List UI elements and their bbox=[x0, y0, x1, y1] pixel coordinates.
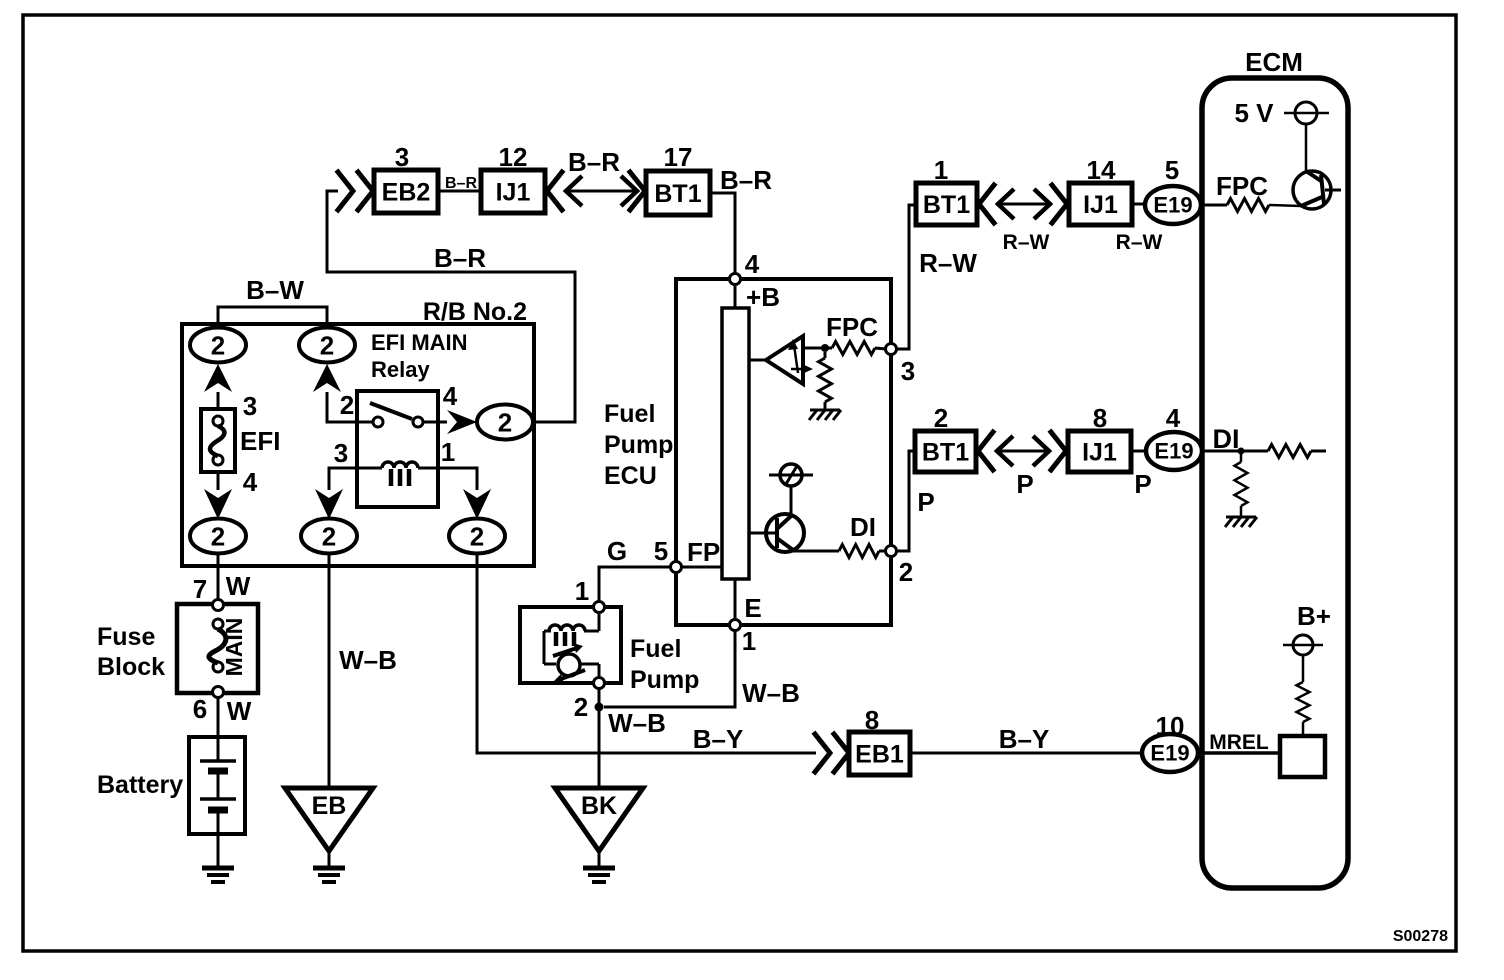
wire B-R EB2 to IJ1 bbox=[438, 190, 481, 193]
arrow right to relay output connector bbox=[447, 410, 477, 434]
svg-text:1: 1 bbox=[441, 437, 455, 467]
svg-text:W–B: W–B bbox=[339, 645, 397, 675]
fuel pump box bbox=[520, 607, 621, 683]
svg-text:3: 3 bbox=[334, 438, 348, 468]
svg-text:4: 4 bbox=[243, 467, 258, 497]
svg-text:ECM: ECM bbox=[1245, 47, 1303, 77]
wire IJ1 to E19 (row1) bbox=[1132, 203, 1145, 206]
node 4 (+B terminal) bbox=[730, 274, 741, 285]
chassis ground (divider) bbox=[810, 409, 840, 412]
relay switch blade bbox=[370, 403, 412, 419]
wire node 4 to IC bar bbox=[734, 284, 737, 308]
svg-text:B–R: B–R bbox=[720, 165, 772, 195]
svg-text:IJ1: IJ1 bbox=[1083, 191, 1118, 219]
svg-text:2: 2 bbox=[211, 331, 225, 361]
svg-text:B–R: B–R bbox=[445, 175, 477, 192]
connector E19 (5) bbox=[1145, 186, 1201, 224]
svg-text:MAIN: MAIN bbox=[221, 618, 247, 677]
junction connector EB2 bbox=[374, 170, 438, 213]
svg-text:IJ1: IJ1 bbox=[496, 179, 531, 207]
junction connector IJ1 (12) bbox=[481, 170, 545, 213]
wire DI resistor tail bbox=[1311, 450, 1326, 453]
svg-text:E19: E19 bbox=[1154, 439, 1193, 464]
wire G fuel pump to FP bbox=[599, 567, 671, 602]
svg-text:6: 6 bbox=[193, 694, 207, 724]
resistor to ground (divider) bbox=[824, 352, 827, 358]
ECU box Fuel Pump ECU bbox=[676, 279, 891, 625]
transistor Q1 (pump driver) bbox=[766, 514, 804, 552]
svg-text:3: 3 bbox=[901, 356, 915, 386]
inline connector chevron at IJ1 left bbox=[1052, 185, 1067, 223]
wire connector to EFI fuse bbox=[217, 392, 220, 409]
op-amp (driver amplifier) bbox=[766, 336, 803, 384]
junction connector IJ1 (14) bbox=[1069, 183, 1132, 225]
resistor DI (ECM input) bbox=[1268, 445, 1311, 458]
inline connector chevron at BT1 right bbox=[979, 185, 994, 223]
svg-text:B–R: B–R bbox=[434, 243, 486, 273]
svg-text:4: 4 bbox=[1166, 403, 1181, 433]
relay EFI MAIN box bbox=[357, 391, 438, 507]
wire current source to transistor bbox=[790, 486, 793, 516]
connector 2 (bottom right) bbox=[449, 519, 505, 554]
wire E19 to FPC resistor bbox=[1201, 204, 1227, 207]
wire transistor to DI resistor bbox=[793, 550, 839, 553]
wire pump pin 2 to BK bbox=[598, 689, 601, 788]
svg-text:R–W: R–W bbox=[1003, 231, 1050, 254]
svg-text:Battery: Battery bbox=[97, 771, 183, 799]
wire connector to fuse block bbox=[217, 553, 220, 601]
svg-text:DI: DI bbox=[850, 512, 876, 542]
wire FPC resistor to transistor bbox=[1269, 205, 1301, 206]
fuse block MAIN bbox=[177, 604, 258, 693]
current source symbol bbox=[769, 474, 813, 477]
svg-text:Block: Block bbox=[97, 653, 165, 681]
pin 2 (fuel pump) bbox=[594, 678, 605, 689]
relay contact left bbox=[373, 417, 383, 427]
svg-text:BT1: BT1 bbox=[923, 191, 970, 219]
inline connector chevron at IJ1 right bbox=[547, 172, 562, 210]
connector 2 (bottom middle) bbox=[301, 519, 357, 554]
svg-text:BK: BK bbox=[581, 792, 617, 820]
inline connector chevron at BT1 left bbox=[630, 172, 645, 210]
svg-text:B+: B+ bbox=[1297, 601, 1331, 631]
svg-text:ECU: ECU bbox=[604, 462, 657, 490]
wire resistor to node 2 bbox=[879, 550, 886, 553]
transistor Q2 (FPC monitor, ECM) bbox=[1293, 171, 1331, 209]
svg-text:R–W: R–W bbox=[919, 248, 977, 278]
ground (battery) bbox=[202, 866, 234, 871]
junction dot (FPC divider) bbox=[821, 344, 829, 352]
wire 5V to transistor bbox=[1305, 124, 1308, 172]
svg-text:3: 3 bbox=[243, 391, 257, 421]
svg-text:P: P bbox=[1016, 469, 1033, 499]
wire battery to ground bbox=[217, 834, 220, 867]
svg-text:1: 1 bbox=[934, 155, 948, 185]
junction connector EB1 bbox=[849, 732, 910, 775]
battery BATTERY bbox=[189, 737, 245, 834]
svg-text:2: 2 bbox=[934, 403, 948, 433]
wire IC bar to node E bbox=[734, 579, 737, 620]
relay block R/B No.2 bbox=[182, 324, 534, 566]
svg-text:5 V: 5 V bbox=[1234, 98, 1274, 128]
svg-text:+B: +B bbox=[746, 282, 780, 312]
svg-text:14: 14 bbox=[1087, 155, 1116, 185]
resistor FPC (ECM) bbox=[1227, 199, 1269, 212]
wire E19 to DI resistor (ECM) bbox=[1202, 450, 1268, 453]
junction connector BT1 (2) bbox=[915, 431, 976, 472]
inline connector arrows into EB1 bbox=[815, 734, 830, 772]
svg-text:Fuse: Fuse bbox=[97, 623, 155, 651]
svg-text:12: 12 bbox=[499, 142, 528, 172]
svg-text:4: 4 bbox=[443, 381, 458, 411]
MREL driver block bbox=[1280, 736, 1325, 777]
svg-text:EB1: EB1 bbox=[855, 741, 904, 769]
junction connector BT1 (1) bbox=[916, 183, 977, 225]
svg-text:P: P bbox=[1134, 469, 1151, 499]
svg-text:5: 5 bbox=[654, 536, 668, 566]
wire connector to relay contact bbox=[327, 392, 373, 422]
pump internal circuit bbox=[598, 612, 601, 631]
ground (EB) bbox=[313, 866, 345, 871]
ground point EB bbox=[285, 788, 373, 851]
svg-text:2: 2 bbox=[498, 408, 512, 438]
inline connector chevron at BT1-2 right bbox=[978, 432, 993, 470]
wire E to pump pin 2 node bbox=[604, 631, 735, 707]
wire relay contact to output connector bbox=[423, 421, 447, 424]
relay contact right bbox=[413, 417, 423, 427]
svg-text:17: 17 bbox=[664, 142, 693, 172]
junction dot (DI) bbox=[1238, 448, 1245, 455]
svg-text:DI: DI bbox=[1213, 424, 1240, 454]
svg-text:B–Y: B–Y bbox=[999, 724, 1050, 754]
svg-text:IJ1: IJ1 bbox=[1082, 439, 1117, 467]
arrow down to bottom-left connector bbox=[204, 489, 232, 519]
svg-text:BT1: BT1 bbox=[922, 439, 969, 467]
svg-text:10: 10 bbox=[1156, 711, 1185, 741]
svg-text:B–Y: B–Y bbox=[693, 724, 744, 754]
svg-text:FP: FP bbox=[687, 537, 720, 567]
wire IC bar to op-amp bbox=[749, 359, 766, 362]
arrow up to top-middle connector bbox=[313, 364, 341, 392]
svg-text:EB: EB bbox=[312, 792, 347, 820]
svg-text:2: 2 bbox=[211, 522, 225, 552]
svg-text:EFI: EFI bbox=[240, 426, 280, 456]
wire P node 2 to BT1 bbox=[896, 451, 915, 551]
node E terminal bbox=[730, 620, 741, 631]
svg-text:E: E bbox=[744, 593, 761, 623]
svg-text:E19: E19 bbox=[1153, 193, 1192, 218]
double arrow BT1 to IJ1 (R-W) bbox=[998, 203, 1050, 206]
svg-text:8: 8 bbox=[865, 705, 879, 735]
wire FP to IC bar bbox=[682, 566, 722, 569]
svg-text:S00278: S00278 bbox=[1393, 928, 1448, 945]
double arrow IJ1 to BT1 bbox=[566, 190, 637, 193]
node 2 (DI terminal) bbox=[886, 546, 897, 557]
svg-text:8: 8 bbox=[1093, 403, 1107, 433]
svg-text:1: 1 bbox=[742, 626, 756, 656]
wire E19 to MREL block bbox=[1198, 751, 1280, 755]
chassis ground (DI) bbox=[1226, 516, 1256, 519]
svg-text:1: 1 bbox=[575, 576, 589, 606]
wire B-W bracket between connectors bbox=[218, 307, 327, 327]
svg-text:EB2: EB2 bbox=[382, 179, 431, 207]
svg-text:E19: E19 bbox=[1150, 741, 1189, 766]
svg-text:BT1: BT1 bbox=[654, 180, 701, 208]
junction dot (pin2/E) bbox=[595, 703, 604, 712]
svg-text:W–B: W–B bbox=[608, 708, 666, 738]
connector 2 (top left) bbox=[190, 328, 246, 363]
wire B-R from EFI MAIN relay output to EB2 bbox=[327, 191, 575, 422]
wire BK to ground bbox=[598, 851, 601, 867]
svg-text:P: P bbox=[917, 487, 934, 517]
svg-text:5: 5 bbox=[1165, 155, 1179, 185]
wire IJ1 to E19 (row2) bbox=[1131, 450, 1146, 453]
resistor DI to ground bbox=[1240, 451, 1243, 462]
arrow up to top-left connector bbox=[204, 364, 232, 392]
svg-text:EFI MAIN: EFI MAIN bbox=[371, 330, 468, 355]
svg-text:Fuel: Fuel bbox=[604, 400, 655, 428]
svg-text:W: W bbox=[226, 571, 251, 601]
arrow down to bottom-middle connector bbox=[315, 489, 343, 519]
double arrow BT1 to IJ1 (P) bbox=[997, 450, 1049, 453]
svg-text:7: 7 bbox=[193, 574, 207, 604]
inline connector arrows into EB2 bbox=[338, 172, 353, 210]
svg-text:3: 3 bbox=[395, 142, 409, 172]
svg-text:Pump: Pump bbox=[630, 666, 699, 694]
svg-text:W: W bbox=[227, 696, 252, 726]
inline connector chevron at IJ1-8 left bbox=[1051, 432, 1066, 470]
wire relay coil right bbox=[418, 468, 477, 490]
svg-text:FPC: FPC bbox=[826, 312, 878, 342]
wire R-W node 3 to BT1 bbox=[896, 205, 916, 349]
svg-text:Fuel: Fuel bbox=[630, 635, 681, 663]
relay coil bbox=[382, 462, 418, 468]
wire fuse block to battery bbox=[217, 698, 220, 738]
svg-text:2: 2 bbox=[574, 692, 588, 722]
junction connector IJ1 (8) bbox=[1068, 431, 1131, 472]
pin 1 (fuel pump) bbox=[594, 602, 605, 613]
svg-text:2: 2 bbox=[340, 390, 354, 420]
svg-text:2: 2 bbox=[320, 331, 334, 361]
resistor FPC (internal) bbox=[832, 342, 875, 355]
svg-text:4: 4 bbox=[745, 249, 760, 279]
ground point BK bbox=[555, 788, 643, 851]
node 3 (FPC terminal) bbox=[886, 344, 897, 355]
wire op-amp to FPC resistor bbox=[803, 347, 832, 350]
ground (BK) bbox=[583, 866, 615, 871]
wire B-Y relay connector to EB1 bbox=[477, 553, 816, 753]
svg-text:2: 2 bbox=[322, 522, 336, 552]
wire B-R BT1 to node 4 bbox=[710, 193, 735, 274]
svg-text:B–W: B–W bbox=[246, 275, 304, 305]
connector 2 (relay output) bbox=[477, 405, 533, 440]
wire EB to ground bbox=[328, 851, 331, 867]
IC bar (hybrid IC) bbox=[722, 308, 749, 579]
resistor (MREL pull-up) bbox=[1302, 722, 1305, 736]
svg-text:FPC: FPC bbox=[1216, 171, 1268, 201]
connector 2 (bottom left) bbox=[190, 519, 246, 554]
wire connector to EB ground bbox=[328, 553, 331, 788]
svg-text:G: G bbox=[607, 536, 627, 566]
svg-text:W–B: W–B bbox=[742, 678, 800, 708]
svg-text:Pump: Pump bbox=[604, 431, 673, 459]
svg-text:MREL: MREL bbox=[1209, 731, 1269, 754]
wire resistor to node 3 bbox=[875, 348, 886, 349]
svg-text:2: 2 bbox=[470, 522, 484, 552]
connector E19 (4) bbox=[1146, 432, 1202, 470]
ECM box bbox=[1202, 78, 1348, 888]
arrow down to bottom-right connector bbox=[463, 489, 491, 519]
svg-text:B–R: B–R bbox=[568, 147, 620, 177]
svg-text:Relay: Relay bbox=[371, 357, 430, 382]
resistor DI (internal) bbox=[839, 545, 879, 558]
supply B+ symbol bbox=[1283, 644, 1323, 647]
junction connector BT1 (17) bbox=[646, 171, 710, 215]
wire B-Y EB1 to E19 bbox=[910, 752, 1142, 755]
fuse EFI bbox=[201, 409, 235, 472]
svg-text:R–W: R–W bbox=[1116, 231, 1163, 254]
node 5 FP terminal bbox=[671, 562, 682, 573]
connector 2 (top middle) bbox=[299, 328, 355, 363]
connector E19 (10) bbox=[1142, 734, 1198, 772]
wire EFI fuse down bbox=[217, 472, 220, 490]
svg-text:2: 2 bbox=[899, 557, 913, 587]
wire relay coil left bbox=[329, 468, 382, 490]
svg-text:R/B No.2: R/B No.2 bbox=[423, 298, 527, 326]
